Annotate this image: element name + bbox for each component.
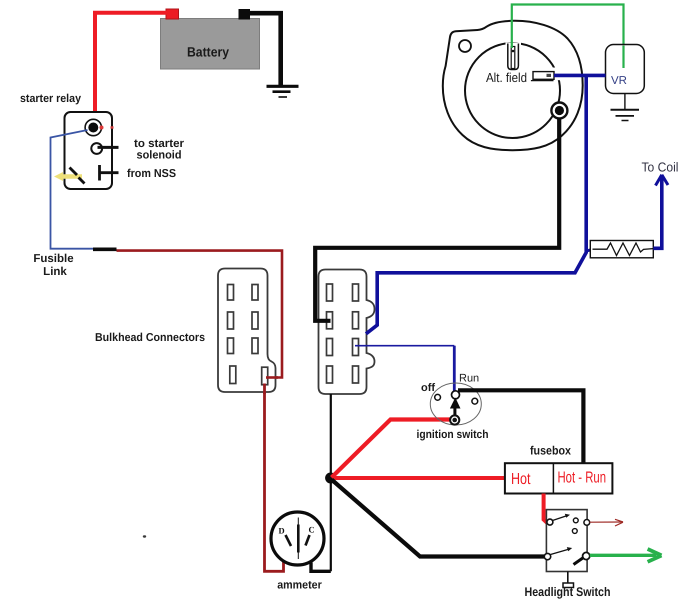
- relay contact lever: [70, 168, 78, 176]
- svg-text:Battery: Battery: [187, 45, 229, 60]
- battery B1: [161, 19, 260, 70]
- J2 slots column2: [353, 284, 359, 383]
- wire relay to fusible link (blue): [51, 130, 94, 249]
- rotor slot: [506, 43, 522, 70]
- headlight bottom arrow: [551, 547, 573, 554]
- ground (VR): [611, 94, 640, 121]
- headlight top arrow: [553, 514, 571, 521]
- svg-text:Fusible: Fusible: [33, 253, 73, 265]
- voltage regulator VR: [606, 45, 645, 94]
- wire blue branch down to resistor and bulkhead: [366, 75, 586, 333]
- relay battery terminal: [85, 119, 113, 135]
- wire dark red J1 slot to bottom edge: [263, 384, 266, 395]
- alternator field terminal: [531, 68, 562, 81]
- svg-text:from NSS: from NSS: [127, 168, 176, 180]
- svg-text:solenoid: solenoid: [137, 150, 182, 162]
- wire green headlight output: [590, 554, 657, 557]
- headlight small contact a: [573, 518, 578, 523]
- bulkhead connector J1 (left): [218, 269, 276, 393]
- svg-text:starter relay: starter relay: [20, 93, 82, 105]
- svg-text:ignition switch: ignition switch: [417, 429, 489, 441]
- headlight small contact b: [572, 529, 577, 534]
- ignition switch S1: [430, 383, 481, 425]
- wire blue J2 to ignition Run: [355, 345, 454, 347]
- fusebox: [505, 463, 613, 493]
- wire black J2 down through junction to ammeter: [330, 394, 332, 571]
- wire red junction to fusebox Hot: [332, 476, 505, 480]
- svg-text:Hot - Run: Hot - Run: [558, 470, 607, 487]
- yellow arrow (relay actuation): [54, 172, 82, 181]
- fusible link F1: [93, 248, 117, 252]
- alternator inner ring: [465, 43, 560, 138]
- battery positive terminal: [166, 9, 179, 19]
- headlight switch S2: [546, 510, 587, 572]
- J2 slots column1: [327, 284, 333, 383]
- ignition rotor arrow: [450, 398, 461, 418]
- wire red fusebox to headlight switch: [544, 494, 549, 523]
- stray ink dot: [143, 535, 146, 537]
- ignition acc contact: [472, 398, 478, 404]
- svg-text:D: D: [279, 526, 285, 536]
- wire black junction to headlight switch: [332, 480, 547, 557]
- green arrowhead: [648, 549, 662, 562]
- ignition feed terminal: [450, 415, 459, 424]
- ammeter M1: [271, 512, 324, 565]
- starter relay K1: [65, 112, 113, 189]
- node main junction: [325, 473, 336, 484]
- wire dark red entry into J1 slot: [266, 376, 278, 379]
- svg-text:Headlight Switch: Headlight Switch: [525, 585, 611, 599]
- alternator output terminal: [551, 103, 567, 119]
- arrowhead to coil: [656, 175, 669, 186]
- wire fusible link to bulkhead connector (dark red): [117, 251, 283, 378]
- svg-text:Hot: Hot: [511, 471, 531, 488]
- ammeter left tick: [286, 535, 292, 546]
- ground (headlight switch): [563, 572, 574, 588]
- ammeter needle: [297, 518, 299, 560]
- svg-text:ammeter: ammeter: [277, 580, 322, 592]
- wire bulkhead connector to ammeter (dark red): [265, 386, 284, 571]
- wire black ammeter right leg: [311, 563, 331, 572]
- ballast resistor R1: [590, 241, 653, 258]
- green wire stub inside VR: [622, 46, 624, 69]
- wire battery positive to starter relay (red): [95, 13, 167, 126]
- svg-text:fusebox: fusebox: [530, 444, 571, 458]
- svg-text:C: C: [309, 525, 315, 535]
- svg-text:To Coil: To Coil: [642, 160, 679, 175]
- J1 slots column1: [228, 285, 236, 384]
- svg-text:VR: VR: [611, 75, 627, 87]
- wire red junction to ignition switch: [332, 420, 453, 478]
- svg-text:Alt. field: Alt. field: [486, 70, 527, 85]
- headlight bottom-left terminal: [544, 553, 550, 559]
- ammeter right tick: [306, 535, 310, 546]
- wire black Run to fusebox: [458, 390, 583, 463]
- svg-text:Bulkhead Connectors: Bulkhead Connectors: [95, 332, 205, 344]
- alternator mounting hole: [459, 40, 471, 52]
- wire battery negative to ground (black): [249, 13, 281, 85]
- ignition run contact: [452, 391, 460, 399]
- ignition off contact: [435, 394, 441, 400]
- svg-text:off: off: [421, 382, 435, 394]
- blue spur into resistor: [585, 249, 594, 252]
- wire green alternator field to VR: [512, 5, 624, 69]
- thin red wire to right (park lights): [590, 519, 624, 526]
- svg-text:Link: Link: [43, 266, 67, 278]
- J1 slots column2: [252, 285, 268, 385]
- battery negative terminal: [239, 9, 251, 20]
- headlight bottom-right terminal: [583, 552, 590, 559]
- headlight top-left terminal: [547, 519, 553, 525]
- alternator housing: [443, 21, 583, 150]
- svg-text:to starter: to starter: [134, 138, 185, 150]
- bulkhead connector J2 (right): [319, 270, 375, 395]
- ground (battery): [267, 86, 299, 97]
- wire black alternator output to bulkhead J2: [315, 118, 559, 321]
- wire blue resistor to coil: [653, 177, 662, 249]
- svg-text:Run: Run: [459, 373, 479, 385]
- headlight right top terminal: [584, 520, 590, 526]
- headlight lever: [574, 558, 584, 565]
- wire blue field terminal to VR: [554, 74, 606, 78]
- relay NSS terminal: [100, 165, 119, 181]
- relay solenoid terminal: [91, 143, 118, 154]
